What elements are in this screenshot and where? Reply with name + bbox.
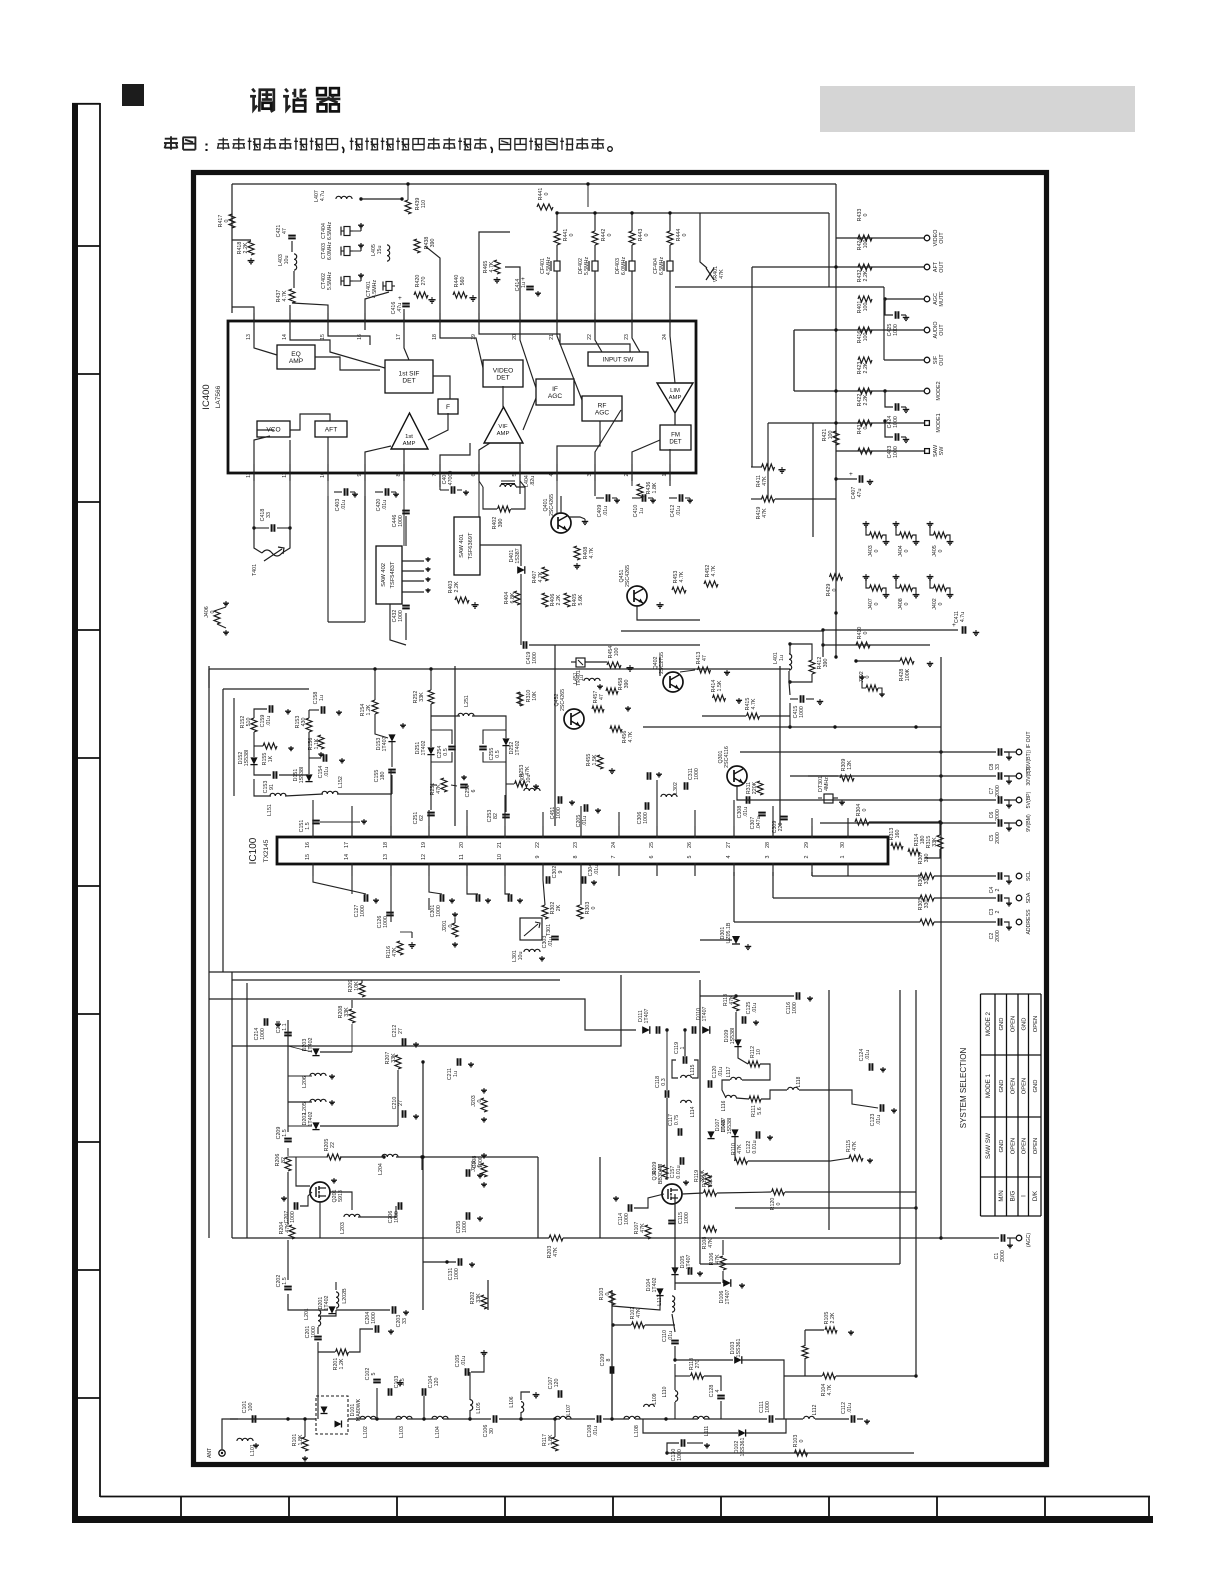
svg-text:5.6K: 5.6K bbox=[578, 594, 584, 605]
svg-text:6.5MHz: 6.5MHz bbox=[327, 222, 333, 241]
svg-text:1000: 1000 bbox=[893, 446, 899, 458]
svg-text:.01u: .01u bbox=[668, 1331, 674, 1341]
svg-text:1000: 1000 bbox=[398, 515, 404, 527]
svg-text:1000: 1000 bbox=[436, 905, 442, 917]
svg-text:560: 560 bbox=[460, 277, 466, 286]
svg-text:1T402: 1T402 bbox=[308, 1111, 314, 1126]
svg-text:2.2K: 2.2K bbox=[556, 594, 562, 605]
svg-text:4: 4 bbox=[726, 856, 732, 859]
svg-text:24: 24 bbox=[611, 842, 617, 848]
svg-text:4MHz: 4MHz bbox=[824, 777, 830, 791]
svg-text:47K: 47K bbox=[708, 1238, 714, 1248]
svg-text:.01u: .01u bbox=[593, 1426, 599, 1436]
svg-text:16: 16 bbox=[357, 334, 363, 340]
svg-text:27: 27 bbox=[398, 1028, 404, 1034]
svg-text:15: 15 bbox=[305, 854, 311, 860]
svg-text:L106: L106 bbox=[509, 1396, 515, 1407]
svg-text:1000: 1000 bbox=[398, 610, 404, 622]
svg-text:13: 13 bbox=[383, 854, 389, 860]
svg-text:100: 100 bbox=[248, 1403, 254, 1412]
svg-text:.01u: .01u bbox=[341, 500, 347, 510]
svg-text:24: 24 bbox=[662, 334, 668, 340]
svg-text:47K: 47K bbox=[762, 476, 768, 486]
svg-text:9: 9 bbox=[558, 870, 564, 873]
svg-text:L202B: L202B bbox=[342, 1288, 348, 1304]
svg-text:2.2K: 2.2K bbox=[863, 394, 869, 405]
svg-text:1S538I: 1S538I bbox=[730, 1028, 736, 1045]
svg-text:0: 0 bbox=[863, 631, 869, 634]
svg-text:0.75: 0.75 bbox=[674, 1115, 680, 1125]
svg-text:0: 0 bbox=[904, 602, 910, 605]
svg-text:110: 110 bbox=[421, 200, 427, 208]
svg-text:0: 0 bbox=[569, 233, 575, 236]
svg-text:L102: L102 bbox=[363, 1426, 369, 1438]
svg-text:1000: 1000 bbox=[360, 905, 366, 917]
svg-text:.01u: .01u bbox=[548, 937, 554, 947]
svg-text:0: 0 bbox=[477, 1164, 483, 1167]
svg-text:0: 0 bbox=[863, 426, 869, 429]
svg-text:18: 18 bbox=[383, 842, 389, 848]
svg-text:2.2K: 2.2K bbox=[454, 581, 460, 592]
svg-text:1u: 1u bbox=[779, 655, 785, 661]
svg-text:1000: 1000 bbox=[792, 1002, 798, 1014]
svg-text:30: 30 bbox=[840, 842, 846, 848]
svg-text:0: 0 bbox=[644, 233, 650, 236]
svg-text:.01u: .01u bbox=[594, 865, 600, 875]
svg-text:100: 100 bbox=[863, 240, 869, 249]
svg-text:1.8K: 1.8K bbox=[298, 1434, 304, 1445]
svg-text:4: 4 bbox=[549, 473, 555, 476]
svg-text:2K: 2K bbox=[556, 904, 562, 911]
svg-text:47K: 47K bbox=[640, 1223, 646, 1233]
svg-text:10u: 10u bbox=[284, 256, 290, 265]
svg-text:47: 47 bbox=[282, 228, 288, 234]
svg-text:GND: GND bbox=[1033, 1080, 1039, 1093]
svg-text:270: 270 bbox=[421, 277, 427, 286]
svg-text:L110: L110 bbox=[662, 1386, 668, 1397]
svg-text:0: 0 bbox=[832, 588, 838, 591]
svg-text:DET: DET bbox=[669, 439, 681, 446]
svg-text:2: 2 bbox=[804, 856, 810, 859]
svg-text:270: 270 bbox=[695, 1360, 701, 1369]
svg-text:1T402: 1T402 bbox=[421, 740, 427, 755]
svg-text:180: 180 bbox=[920, 836, 926, 845]
svg-text:22: 22 bbox=[535, 842, 541, 848]
svg-text:1000: 1000 bbox=[371, 1312, 377, 1324]
svg-text::: : bbox=[204, 138, 209, 155]
svg-text:L113: L113 bbox=[657, 1294, 663, 1305]
svg-text:M/N: M/N bbox=[998, 1190, 1005, 1201]
svg-text:6: 6 bbox=[471, 473, 477, 476]
svg-text:330: 330 bbox=[924, 876, 930, 885]
svg-text:1S538I: 1S538I bbox=[727, 1118, 733, 1135]
svg-text:SCL: SCL bbox=[1026, 871, 1032, 881]
svg-text:1u: 1u bbox=[453, 1071, 459, 1077]
svg-text:220K: 220K bbox=[752, 781, 758, 794]
svg-text:1000: 1000 bbox=[684, 1212, 690, 1224]
svg-text:14: 14 bbox=[282, 334, 288, 340]
svg-text:0.5: 0.5 bbox=[495, 750, 501, 757]
svg-text:510: 510 bbox=[246, 718, 252, 727]
svg-text:AMP: AMP bbox=[289, 358, 304, 365]
svg-text:SYSTEM SELECTION: SYSTEM SELECTION bbox=[959, 1048, 968, 1129]
svg-text:47K: 47K bbox=[285, 1223, 291, 1233]
svg-text:AFT: AFT bbox=[325, 426, 337, 433]
svg-text:3: 3 bbox=[587, 473, 593, 476]
svg-text:L203: L203 bbox=[340, 1222, 346, 1234]
svg-text:L152: L152 bbox=[338, 776, 344, 788]
svg-text:L111: L111 bbox=[704, 1426, 710, 1437]
svg-text:47000: 47000 bbox=[448, 471, 454, 486]
svg-text:23: 23 bbox=[624, 334, 630, 340]
svg-text:160: 160 bbox=[895, 830, 901, 839]
svg-text:29: 29 bbox=[804, 842, 810, 848]
svg-text:.01u: .01u bbox=[266, 716, 272, 726]
svg-text:6.8K: 6.8K bbox=[510, 592, 516, 603]
svg-text:2000: 2000 bbox=[995, 930, 1001, 942]
svg-text:OPEN: OPEN bbox=[1022, 1078, 1028, 1094]
svg-text:15: 15 bbox=[320, 334, 326, 340]
svg-text:IC400: IC400 bbox=[201, 384, 212, 409]
svg-text:30V(BT): 30V(BT) bbox=[1026, 766, 1032, 786]
svg-text:47K: 47K bbox=[762, 508, 768, 518]
svg-text:19: 19 bbox=[421, 842, 427, 848]
svg-text:OUT: OUT bbox=[939, 232, 945, 244]
svg-text:0: 0 bbox=[865, 675, 871, 678]
svg-text:L302: L302 bbox=[673, 782, 679, 794]
svg-text:4.7K: 4.7K bbox=[827, 1384, 833, 1395]
svg-text:GND: GND bbox=[1022, 1018, 1028, 1031]
svg-text:AMP: AMP bbox=[497, 431, 510, 437]
svg-text:MODE 1: MODE 1 bbox=[985, 1073, 992, 1098]
svg-text:10: 10 bbox=[497, 854, 503, 860]
svg-text:L103: L103 bbox=[399, 1426, 405, 1438]
svg-text:.01u: .01u bbox=[752, 1003, 758, 1013]
svg-text:.47u: .47u bbox=[397, 303, 403, 313]
svg-text:MODE 2: MODE 2 bbox=[985, 1011, 992, 1036]
svg-text:20: 20 bbox=[512, 334, 518, 340]
svg-text:33K: 33K bbox=[344, 1007, 350, 1017]
svg-text:L151: L151 bbox=[267, 804, 273, 816]
svg-text:.01u: .01u bbox=[847, 1403, 853, 1413]
svg-text:390K: 390K bbox=[700, 1169, 706, 1182]
svg-text:.01u: .01u bbox=[865, 1050, 871, 1060]
svg-text:OPEN: OPEN bbox=[1022, 1138, 1028, 1154]
svg-text:1st SIF: 1st SIF bbox=[399, 371, 420, 378]
svg-text:0.01u: 0.01u bbox=[752, 1140, 758, 1153]
svg-text:OPEN: OPEN bbox=[1011, 1138, 1017, 1154]
svg-text:AMP: AMP bbox=[403, 441, 416, 447]
svg-text:1st: 1st bbox=[405, 434, 413, 440]
svg-text:2000: 2000 bbox=[1000, 1250, 1006, 1262]
svg-text:SAW SW: SAW SW bbox=[985, 1133, 992, 1159]
svg-text:.82u: .82u bbox=[530, 476, 536, 486]
svg-text:EQ: EQ bbox=[291, 351, 301, 358]
svg-text:47K: 47K bbox=[737, 1144, 743, 1154]
svg-text:10u: 10u bbox=[518, 952, 524, 961]
svg-text:21: 21 bbox=[549, 334, 555, 340]
svg-text:5: 5 bbox=[371, 1372, 377, 1375]
svg-text:.01u: .01u bbox=[603, 506, 609, 516]
svg-text:33K: 33K bbox=[391, 1053, 397, 1063]
svg-text:12K: 12K bbox=[847, 760, 853, 770]
svg-text:2SC4265: 2SC4265 bbox=[549, 494, 555, 516]
svg-text:OPEN: OPEN bbox=[1011, 1016, 1017, 1032]
svg-text:100K: 100K bbox=[905, 668, 911, 681]
svg-text:.01u: .01u bbox=[676, 506, 682, 516]
svg-text:1000: 1000 bbox=[799, 706, 805, 718]
svg-text:8: 8 bbox=[396, 473, 402, 476]
svg-text:47: 47 bbox=[599, 694, 605, 700]
svg-text:5: 5 bbox=[512, 473, 518, 476]
svg-text:ADDRESS: ADDRESS bbox=[1026, 909, 1032, 935]
svg-text:5: 5 bbox=[687, 856, 693, 859]
svg-text:DET: DET bbox=[496, 375, 509, 382]
svg-text:1.2K: 1.2K bbox=[339, 1358, 345, 1369]
svg-text:0: 0 bbox=[210, 610, 216, 613]
svg-text:.01u: .01u bbox=[382, 500, 388, 510]
svg-text:+: + bbox=[521, 276, 525, 283]
svg-text:6: 6 bbox=[471, 789, 477, 792]
svg-text:430: 430 bbox=[301, 718, 307, 727]
svg-text:4.7K: 4.7K bbox=[628, 731, 634, 742]
svg-text:.01u: .01u bbox=[718, 1067, 724, 1077]
svg-text:16: 16 bbox=[305, 842, 311, 848]
svg-text:OPEN: OPEN bbox=[1033, 1016, 1039, 1032]
svg-text:.01u: .01u bbox=[461, 1356, 467, 1366]
svg-text:7: 7 bbox=[611, 856, 617, 859]
svg-text:4.7K: 4.7K bbox=[711, 565, 717, 576]
svg-text:100: 100 bbox=[614, 648, 620, 657]
svg-text:330: 330 bbox=[924, 900, 930, 909]
svg-text:390: 390 bbox=[430, 239, 436, 248]
svg-text:22: 22 bbox=[587, 334, 593, 340]
svg-text:0: 0 bbox=[544, 192, 550, 195]
svg-text:1000: 1000 bbox=[556, 807, 562, 819]
svg-text:4.7u: 4.7u bbox=[320, 191, 326, 201]
svg-text:1.5K: 1.5K bbox=[717, 680, 723, 691]
svg-text:L112: L112 bbox=[812, 1404, 818, 1415]
svg-text:1000: 1000 bbox=[893, 324, 899, 336]
svg-text:1T407: 1T407 bbox=[702, 1006, 708, 1021]
svg-text:1000: 1000 bbox=[643, 812, 649, 824]
svg-text:220: 220 bbox=[778, 823, 784, 832]
svg-text:TSF6369T: TSF6369T bbox=[468, 532, 474, 559]
svg-text:ANT: ANT bbox=[207, 1448, 213, 1458]
svg-text:L206: L206 bbox=[302, 1076, 308, 1088]
svg-text:1S538I: 1S538I bbox=[244, 750, 250, 767]
svg-text:1SS361: 1SS361 bbox=[736, 1339, 742, 1358]
svg-text:L109: L109 bbox=[652, 1393, 658, 1404]
svg-text:33: 33 bbox=[266, 512, 272, 518]
svg-text:13: 13 bbox=[246, 334, 252, 340]
svg-text:12: 12 bbox=[246, 472, 252, 478]
svg-text:0.3: 0.3 bbox=[661, 1078, 667, 1085]
svg-text:LIM: LIM bbox=[670, 388, 680, 394]
svg-text:DET: DET bbox=[402, 378, 415, 385]
svg-text:L251: L251 bbox=[464, 695, 470, 707]
svg-text:.01u: .01u bbox=[324, 767, 330, 777]
svg-text:1.5K: 1.5K bbox=[592, 754, 598, 765]
svg-text:L108: L108 bbox=[634, 1425, 640, 1437]
svg-text:2: 2 bbox=[995, 888, 1001, 891]
svg-text:INPUT SW: INPUT SW bbox=[603, 356, 634, 363]
svg-text:47K: 47K bbox=[636, 1308, 642, 1318]
svg-text:0: 0 bbox=[938, 549, 944, 552]
svg-text:+: + bbox=[398, 295, 402, 302]
svg-text:9: 9 bbox=[535, 856, 541, 859]
svg-text:1.5: 1.5 bbox=[305, 822, 311, 829]
svg-text:10u: 10u bbox=[526, 775, 532, 784]
svg-text:330: 330 bbox=[924, 854, 930, 863]
svg-text:1: 1 bbox=[680, 1046, 686, 1049]
svg-text:1000: 1000 bbox=[311, 1326, 317, 1338]
svg-text:5.6: 5.6 bbox=[757, 1107, 763, 1114]
svg-text:BB304M: BB304M bbox=[658, 1164, 664, 1184]
svg-text:390: 390 bbox=[823, 659, 829, 668]
svg-text:17: 17 bbox=[396, 334, 402, 340]
svg-text:1.1: 1.1 bbox=[282, 1023, 288, 1030]
svg-text:9: 9 bbox=[357, 473, 363, 476]
svg-text:1.5: 1.5 bbox=[282, 1277, 288, 1284]
svg-text:OUT: OUT bbox=[939, 324, 945, 336]
svg-text:2SC4265: 2SC4265 bbox=[560, 689, 566, 711]
svg-text:1.8K: 1.8K bbox=[548, 1434, 554, 1445]
svg-text:L114: L114 bbox=[690, 1106, 696, 1117]
svg-text:2000: 2000 bbox=[995, 785, 1001, 797]
svg-text:6.0MHz: 6.0MHz bbox=[327, 242, 333, 261]
svg-text:.01u: .01u bbox=[876, 1115, 882, 1125]
svg-text:100: 100 bbox=[863, 303, 869, 312]
svg-text:1000: 1000 bbox=[694, 768, 700, 780]
svg-text:GND: GND bbox=[999, 1018, 1005, 1031]
svg-text:1T407: 1T407 bbox=[382, 736, 388, 751]
svg-text:1.5: 1.5 bbox=[282, 1129, 288, 1136]
svg-text:AMP: AMP bbox=[669, 395, 682, 401]
svg-text:L104: L104 bbox=[435, 1426, 441, 1438]
svg-text:2000: 2000 bbox=[995, 832, 1001, 844]
svg-text:47u: 47u bbox=[857, 489, 863, 498]
svg-text:+: + bbox=[849, 471, 853, 478]
svg-text:OPEN: OPEN bbox=[1033, 1138, 1039, 1154]
svg-text:2.2K: 2.2K bbox=[863, 362, 869, 373]
svg-text:L117: L117 bbox=[726, 1066, 732, 1077]
svg-text:47: 47 bbox=[702, 655, 708, 661]
svg-text:0: 0 bbox=[874, 549, 880, 552]
svg-text:SAW 401: SAW 401 bbox=[459, 534, 465, 558]
svg-text:18: 18 bbox=[432, 334, 438, 340]
svg-text:L116: L116 bbox=[721, 1100, 727, 1111]
svg-text:IF: IF bbox=[552, 386, 558, 393]
svg-text:.01u: .01u bbox=[743, 807, 749, 817]
svg-text:4.7K: 4.7K bbox=[589, 547, 595, 558]
svg-text:0: 0 bbox=[224, 219, 230, 222]
svg-text:D/K: D/K bbox=[1032, 1190, 1039, 1201]
svg-text:1000: 1000 bbox=[532, 652, 538, 664]
svg-text:20: 20 bbox=[459, 842, 465, 848]
svg-text:1T402: 1T402 bbox=[324, 1295, 330, 1310]
svg-text:GND: GND bbox=[999, 1080, 1005, 1093]
svg-text:L107: L107 bbox=[566, 1404, 572, 1415]
svg-text:0: 0 bbox=[938, 602, 944, 605]
svg-text:2.2K: 2.2K bbox=[863, 270, 869, 281]
svg-text:AGC: AGC bbox=[548, 393, 563, 400]
svg-text:180: 180 bbox=[380, 772, 386, 781]
svg-text:7: 7 bbox=[432, 473, 438, 476]
svg-text:OPEN: OPEN bbox=[1011, 1078, 1017, 1094]
svg-text:1000: 1000 bbox=[624, 1213, 630, 1225]
svg-text:82: 82 bbox=[493, 813, 499, 819]
svg-text:L118: L118 bbox=[796, 1076, 802, 1087]
svg-text:390: 390 bbox=[624, 680, 630, 689]
svg-text:47K: 47K bbox=[852, 1141, 858, 1151]
svg-text:30: 30 bbox=[489, 1428, 495, 1434]
svg-text:27: 27 bbox=[726, 842, 732, 848]
svg-text:27: 27 bbox=[398, 1100, 404, 1106]
svg-text:0: 0 bbox=[607, 233, 613, 236]
svg-text:1T402: 1T402 bbox=[652, 1277, 658, 1292]
svg-text:4.7K: 4.7K bbox=[679, 571, 685, 582]
svg-text:0: 0 bbox=[605, 1292, 611, 1295]
svg-text:2000: 2000 bbox=[995, 809, 1001, 821]
svg-text:1000: 1000 bbox=[765, 1401, 771, 1413]
svg-text:47K: 47K bbox=[715, 1254, 721, 1264]
svg-text:TX2145: TX2145 bbox=[263, 839, 270, 862]
svg-text:5V(BP): 5V(BP) bbox=[1026, 791, 1032, 808]
svg-text:1K: 1K bbox=[268, 755, 274, 762]
svg-text:1000: 1000 bbox=[383, 916, 389, 928]
svg-text:1T402: 1T402 bbox=[308, 1037, 314, 1052]
svg-text:4.7K: 4.7K bbox=[751, 698, 757, 709]
svg-text:1.2K: 1.2K bbox=[366, 704, 372, 715]
svg-text:L201: L201 bbox=[304, 1308, 310, 1320]
svg-text:120: 120 bbox=[554, 1379, 560, 1388]
svg-text:(AGC): (AGC) bbox=[1026, 1233, 1032, 1248]
svg-text:10K: 10K bbox=[354, 981, 360, 991]
svg-text:47K: 47K bbox=[392, 947, 398, 957]
svg-text:RF: RF bbox=[598, 403, 607, 410]
svg-text:0: 0 bbox=[477, 1099, 483, 1102]
svg-text:2.2K: 2.2K bbox=[830, 1312, 836, 1323]
svg-text:2.2K: 2.2K bbox=[243, 242, 249, 253]
svg-text:2: 2 bbox=[624, 473, 630, 476]
svg-text:9V(BM): 9V(BM) bbox=[1026, 814, 1032, 832]
svg-text:0: 0 bbox=[863, 213, 869, 216]
svg-text:0: 0 bbox=[591, 906, 597, 909]
svg-text:MODE1: MODE1 bbox=[936, 413, 942, 432]
svg-text:1u: 1u bbox=[579, 675, 585, 681]
svg-text:MODE2: MODE2 bbox=[936, 381, 942, 400]
svg-text:1000: 1000 bbox=[677, 1449, 683, 1461]
svg-text:33: 33 bbox=[402, 1318, 408, 1324]
svg-text:28: 28 bbox=[765, 842, 771, 848]
svg-text:L105: L105 bbox=[476, 1402, 482, 1413]
svg-text:12: 12 bbox=[421, 854, 427, 860]
svg-text:.047u: .047u bbox=[756, 816, 762, 829]
svg-text:T401: T401 bbox=[252, 564, 258, 576]
svg-text:SDA: SDA bbox=[1026, 892, 1032, 903]
svg-text:26: 26 bbox=[687, 842, 693, 848]
svg-text:14: 14 bbox=[344, 854, 350, 860]
svg-text:1: 1 bbox=[840, 856, 846, 859]
svg-text:3: 3 bbox=[765, 856, 771, 859]
svg-text:4.7K: 4.7K bbox=[282, 290, 288, 301]
svg-text:21: 21 bbox=[497, 842, 503, 848]
svg-text:MA80WK: MA80WK bbox=[356, 1398, 362, 1421]
svg-text:10: 10 bbox=[320, 472, 326, 478]
svg-text:2SC4265: 2SC4265 bbox=[625, 565, 631, 587]
svg-text:B/G: B/G bbox=[1010, 1190, 1017, 1201]
